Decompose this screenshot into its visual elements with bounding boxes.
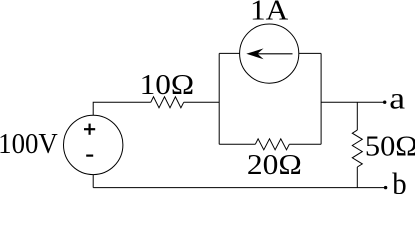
svg-text:20Ω: 20Ω — [247, 148, 302, 181]
wire stub to current source left terminal — [219, 52, 239, 54]
wire top-left corner from voltage source to 10-ohm resistor — [93, 102, 151, 115]
wire right vertical of parallel section — [320, 53, 322, 144]
svg-text:a: a — [389, 81, 405, 115]
node b terminal dot — [384, 186, 387, 189]
resistor 20Ω zigzag — [255, 139, 289, 150]
resistor 50Ω vertical zigzag — [352, 130, 362, 167]
wire 20-ohm branch right segment — [289, 143, 321, 145]
wire from 50-ohm resistor down to bottom rail — [356, 167, 358, 188]
svg-text:1A: 1A — [250, 0, 288, 26]
node a terminal dot — [383, 101, 386, 104]
wire stub from current source right terminal — [299, 52, 321, 54]
wire from output rail down to 50-ohm resistor — [356, 102, 358, 130]
current source 1A circle — [240, 24, 299, 83]
voltage source plus sign — [84, 124, 95, 135]
svg-text:100V: 100V — [0, 128, 58, 160]
resistor 10Ω zigzag — [151, 97, 184, 108]
svg-text:50Ω: 50Ω — [365, 131, 415, 162]
wire output rail to node a — [321, 101, 385, 103]
svg-text:10Ω: 10Ω — [140, 68, 194, 101]
current source arrow pointing left — [246, 48, 292, 59]
voltage source minus sign — [86, 155, 93, 157]
wire 10-ohm to left vertical — [184, 101, 220, 103]
wire 20-ohm branch left segment — [219, 143, 255, 145]
wire left vertical of parallel section — [218, 53, 220, 144]
svg-text:b: b — [392, 167, 406, 194]
wire bottom rail to node b — [93, 187, 385, 189]
wire from voltage source bottom to bottom rail — [92, 175, 94, 188]
voltage source 100V circle — [63, 115, 122, 174]
